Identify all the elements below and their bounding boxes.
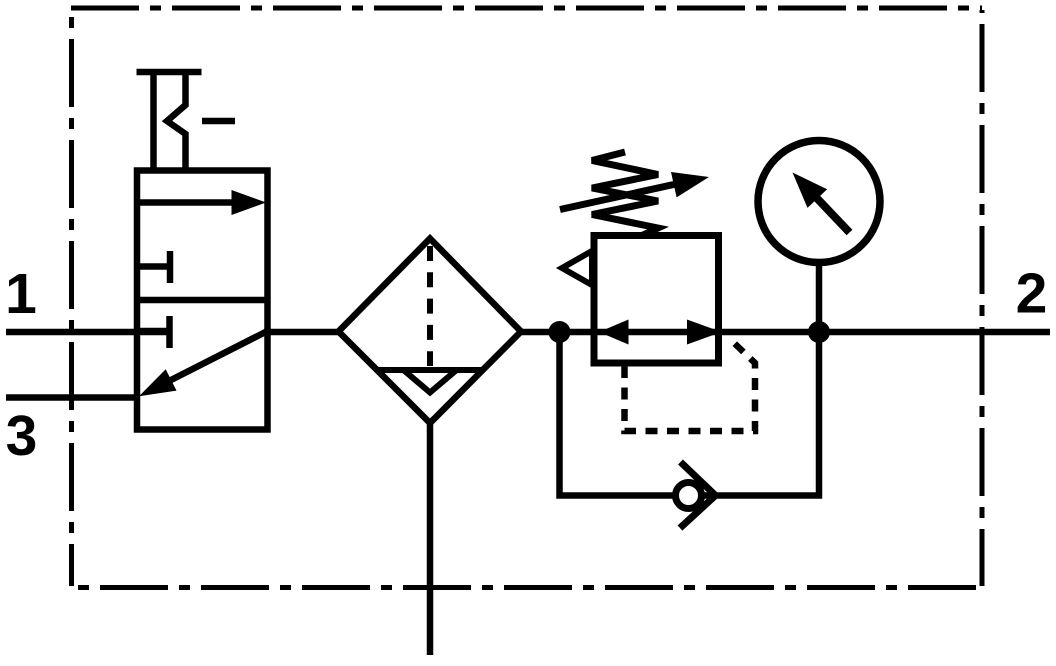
enclosure border right edge: [980, 10, 985, 586]
enclosure border bottom edge: [71, 585, 982, 590]
check valve C1 seat: [680, 462, 716, 528]
wire: port 1 supply line into valve: [6, 329, 170, 336]
node A (regulator inlet junction): [549, 321, 571, 343]
pressure regulator R1 setting spring: [592, 152, 658, 235]
on-off valve V1 position divider: [137, 297, 268, 304]
svg-text:3: 3: [6, 404, 38, 468]
on-off valve V1 body (two stacked position boxes): [137, 171, 268, 430]
on-off valve V1 actuator right stem with detent notch: [167, 72, 186, 170]
on-off valve V1 actuator left stem: [150, 72, 157, 170]
filter F1 filter element dashed line: [427, 246, 433, 366]
pressure gauge G1 dial circle: [758, 141, 880, 263]
pressure regulator R1 body: [594, 236, 719, 364]
wire: port 3 exhaust line: [6, 394, 139, 401]
wire: bypass branch with check valve: [560, 332, 820, 496]
node B (gauge junction): [808, 321, 830, 343]
on-off valve V1 manual slide actuator cap: [137, 69, 202, 76]
pressure gauge G1 needle: [793, 173, 850, 233]
on-off valve V1 actuator minus mark: [202, 118, 235, 125]
filter F1 condensate separator line: [377, 367, 483, 373]
pressure regulator R1 pilot sensing dashed line: [625, 342, 756, 431]
enclosure border (dash-dot assembly frame) top edge: [71, 6, 982, 11]
check valve C1 ball circle: [676, 483, 702, 509]
on-off valve V1 blocked port tee (upper box): [137, 251, 170, 283]
wire: filter F1 condensate drain line: [427, 423, 434, 655]
on-off valve V1 exhaust path arrow (2 to 3): [139, 332, 266, 396]
enclosure border left edge: [69, 10, 74, 586]
on-off valve V1 open-position flow arrow: [137, 190, 266, 215]
wire: main line from valve outlet through regulator to port 2: [264, 329, 1050, 336]
pressure regulator R1 adjustment arrow: [560, 172, 709, 210]
filter F1 with water separator: diamond body: [339, 239, 522, 424]
filter F1 separator triangle: [404, 370, 457, 393]
svg-text:1: 1: [5, 262, 37, 326]
on-off valve V1 blocked port tee (lower box): [137, 316, 170, 348]
pressure regulator R1 left flow arrowhead: [599, 320, 629, 345]
svg-text:2: 2: [1016, 262, 1048, 326]
pressure regulator R1 right flow arrowhead: [687, 320, 722, 345]
pressure regulator R1 relief vent triangle: [562, 251, 592, 285]
pressure gauge G1 stem: [816, 262, 823, 332]
